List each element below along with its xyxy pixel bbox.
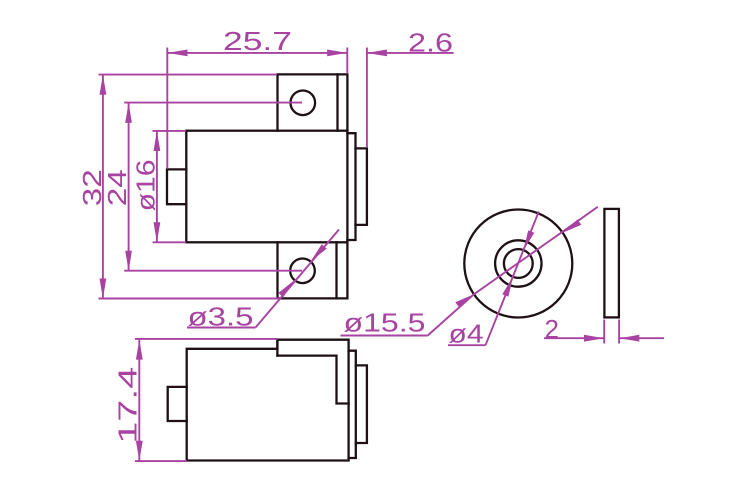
leader o4 underline	[448, 344, 486, 346]
dim 25.7 line	[168, 52, 348, 54]
arrow 17.4 bottom	[136, 441, 143, 461]
front view: bottom tab hole	[290, 259, 315, 284]
front view: main body rectangle	[186, 131, 347, 243]
arrow 32 bottom	[100, 279, 107, 299]
ext line top of 17.4	[135, 338, 278, 340]
leader o15.5 underline	[341, 335, 428, 337]
front view: top mounting tab outline	[278, 74, 348, 130]
ext line bottom of 17.4	[135, 460, 187, 462]
dim 2 right segment	[619, 337, 664, 339]
arrow 25.7 right / 2.6 left	[327, 50, 347, 57]
ext line left of 2	[603, 320, 605, 344]
front view: top tab inner edge line	[336, 74, 338, 130]
arrow 24 bottom	[125, 251, 132, 271]
svg-text:2.6: 2.6	[408, 28, 453, 58]
svg-text:2: 2	[545, 314, 559, 344]
svg-text:24: 24	[102, 169, 132, 206]
arrow 17.4 top	[136, 340, 143, 360]
front view: right collar p2	[356, 148, 367, 225]
washer: side view thin rectangle	[604, 209, 619, 318]
dim o16 line	[156, 131, 158, 242]
leader o15.5 diagonal	[428, 207, 598, 336]
arrow 2.6 right	[367, 50, 387, 57]
dim 2.6 line	[367, 52, 454, 54]
svg-text:ø15.5: ø15.5	[344, 308, 426, 338]
ext line right of 2	[618, 320, 620, 344]
washer: inner hole circle ø4	[504, 249, 533, 278]
arrow o15.5 upper	[563, 220, 582, 233]
top view: step inner vertical	[276, 340, 278, 356]
front view: right collar p1	[347, 133, 355, 240]
leader o4 diagonal	[486, 212, 539, 346]
dim 17.4 line	[138, 340, 140, 461]
ext line right of 25.7	[346, 48, 348, 74]
dim 2 left segment	[544, 337, 604, 339]
leader o3.5 diagonal	[256, 230, 340, 328]
front view: left boss protrusion	[167, 169, 186, 204]
washer: middle hub circle	[495, 240, 541, 286]
arrow o3.5 upper	[311, 244, 327, 261]
svg-text:17.4: 17.4	[113, 367, 143, 444]
top view: outline with step	[187, 340, 349, 461]
arrow o4 upper	[524, 230, 535, 250]
dim 32 line	[102, 75, 104, 299]
top view: right collar p1	[349, 351, 356, 458]
arrow o15.5 lower	[455, 294, 474, 307]
svg-text:ø4: ø4	[449, 319, 484, 349]
leader o3.5 underline	[187, 327, 256, 329]
arrow o3.5 lower	[278, 280, 294, 297]
washer: outer circle ø15.5	[464, 210, 572, 318]
ext line bottom of 24	[124, 270, 302, 272]
ext line left of 25.7	[166, 48, 168, 169]
arrow 25.7 left	[168, 50, 188, 57]
arrow 32 top	[100, 75, 107, 95]
ext line top of 24	[124, 102, 302, 104]
top view: right collar p2	[356, 365, 367, 443]
arrow o16 top	[154, 131, 161, 151]
front view: bottom tab inner edge line	[335, 242, 337, 298]
arrow 2 right pointing left	[619, 335, 639, 342]
front view: top tab hole	[291, 91, 316, 116]
ext line right of 2.6	[366, 48, 368, 148]
arrow o16 bottom	[154, 222, 161, 242]
ext line top of 32	[99, 74, 278, 76]
top view: left boss protrusion	[168, 387, 187, 421]
front view: bottom mounting tab outline	[278, 242, 348, 298]
dim 24 line	[128, 103, 130, 271]
arrow 24 top	[125, 103, 132, 123]
top view: inner contour L-shape	[277, 356, 348, 404]
arrow 2 left pointing right	[584, 335, 604, 342]
svg-text:ø16: ø16	[131, 159, 161, 211]
arrow o4 lower	[502, 277, 513, 297]
svg-text:ø3.5: ø3.5	[188, 302, 254, 332]
svg-text:25.7: 25.7	[223, 26, 292, 56]
ext line bottom of o16	[153, 241, 186, 243]
ext line bottom of 32	[99, 298, 280, 300]
ext line top of o16	[153, 130, 186, 132]
